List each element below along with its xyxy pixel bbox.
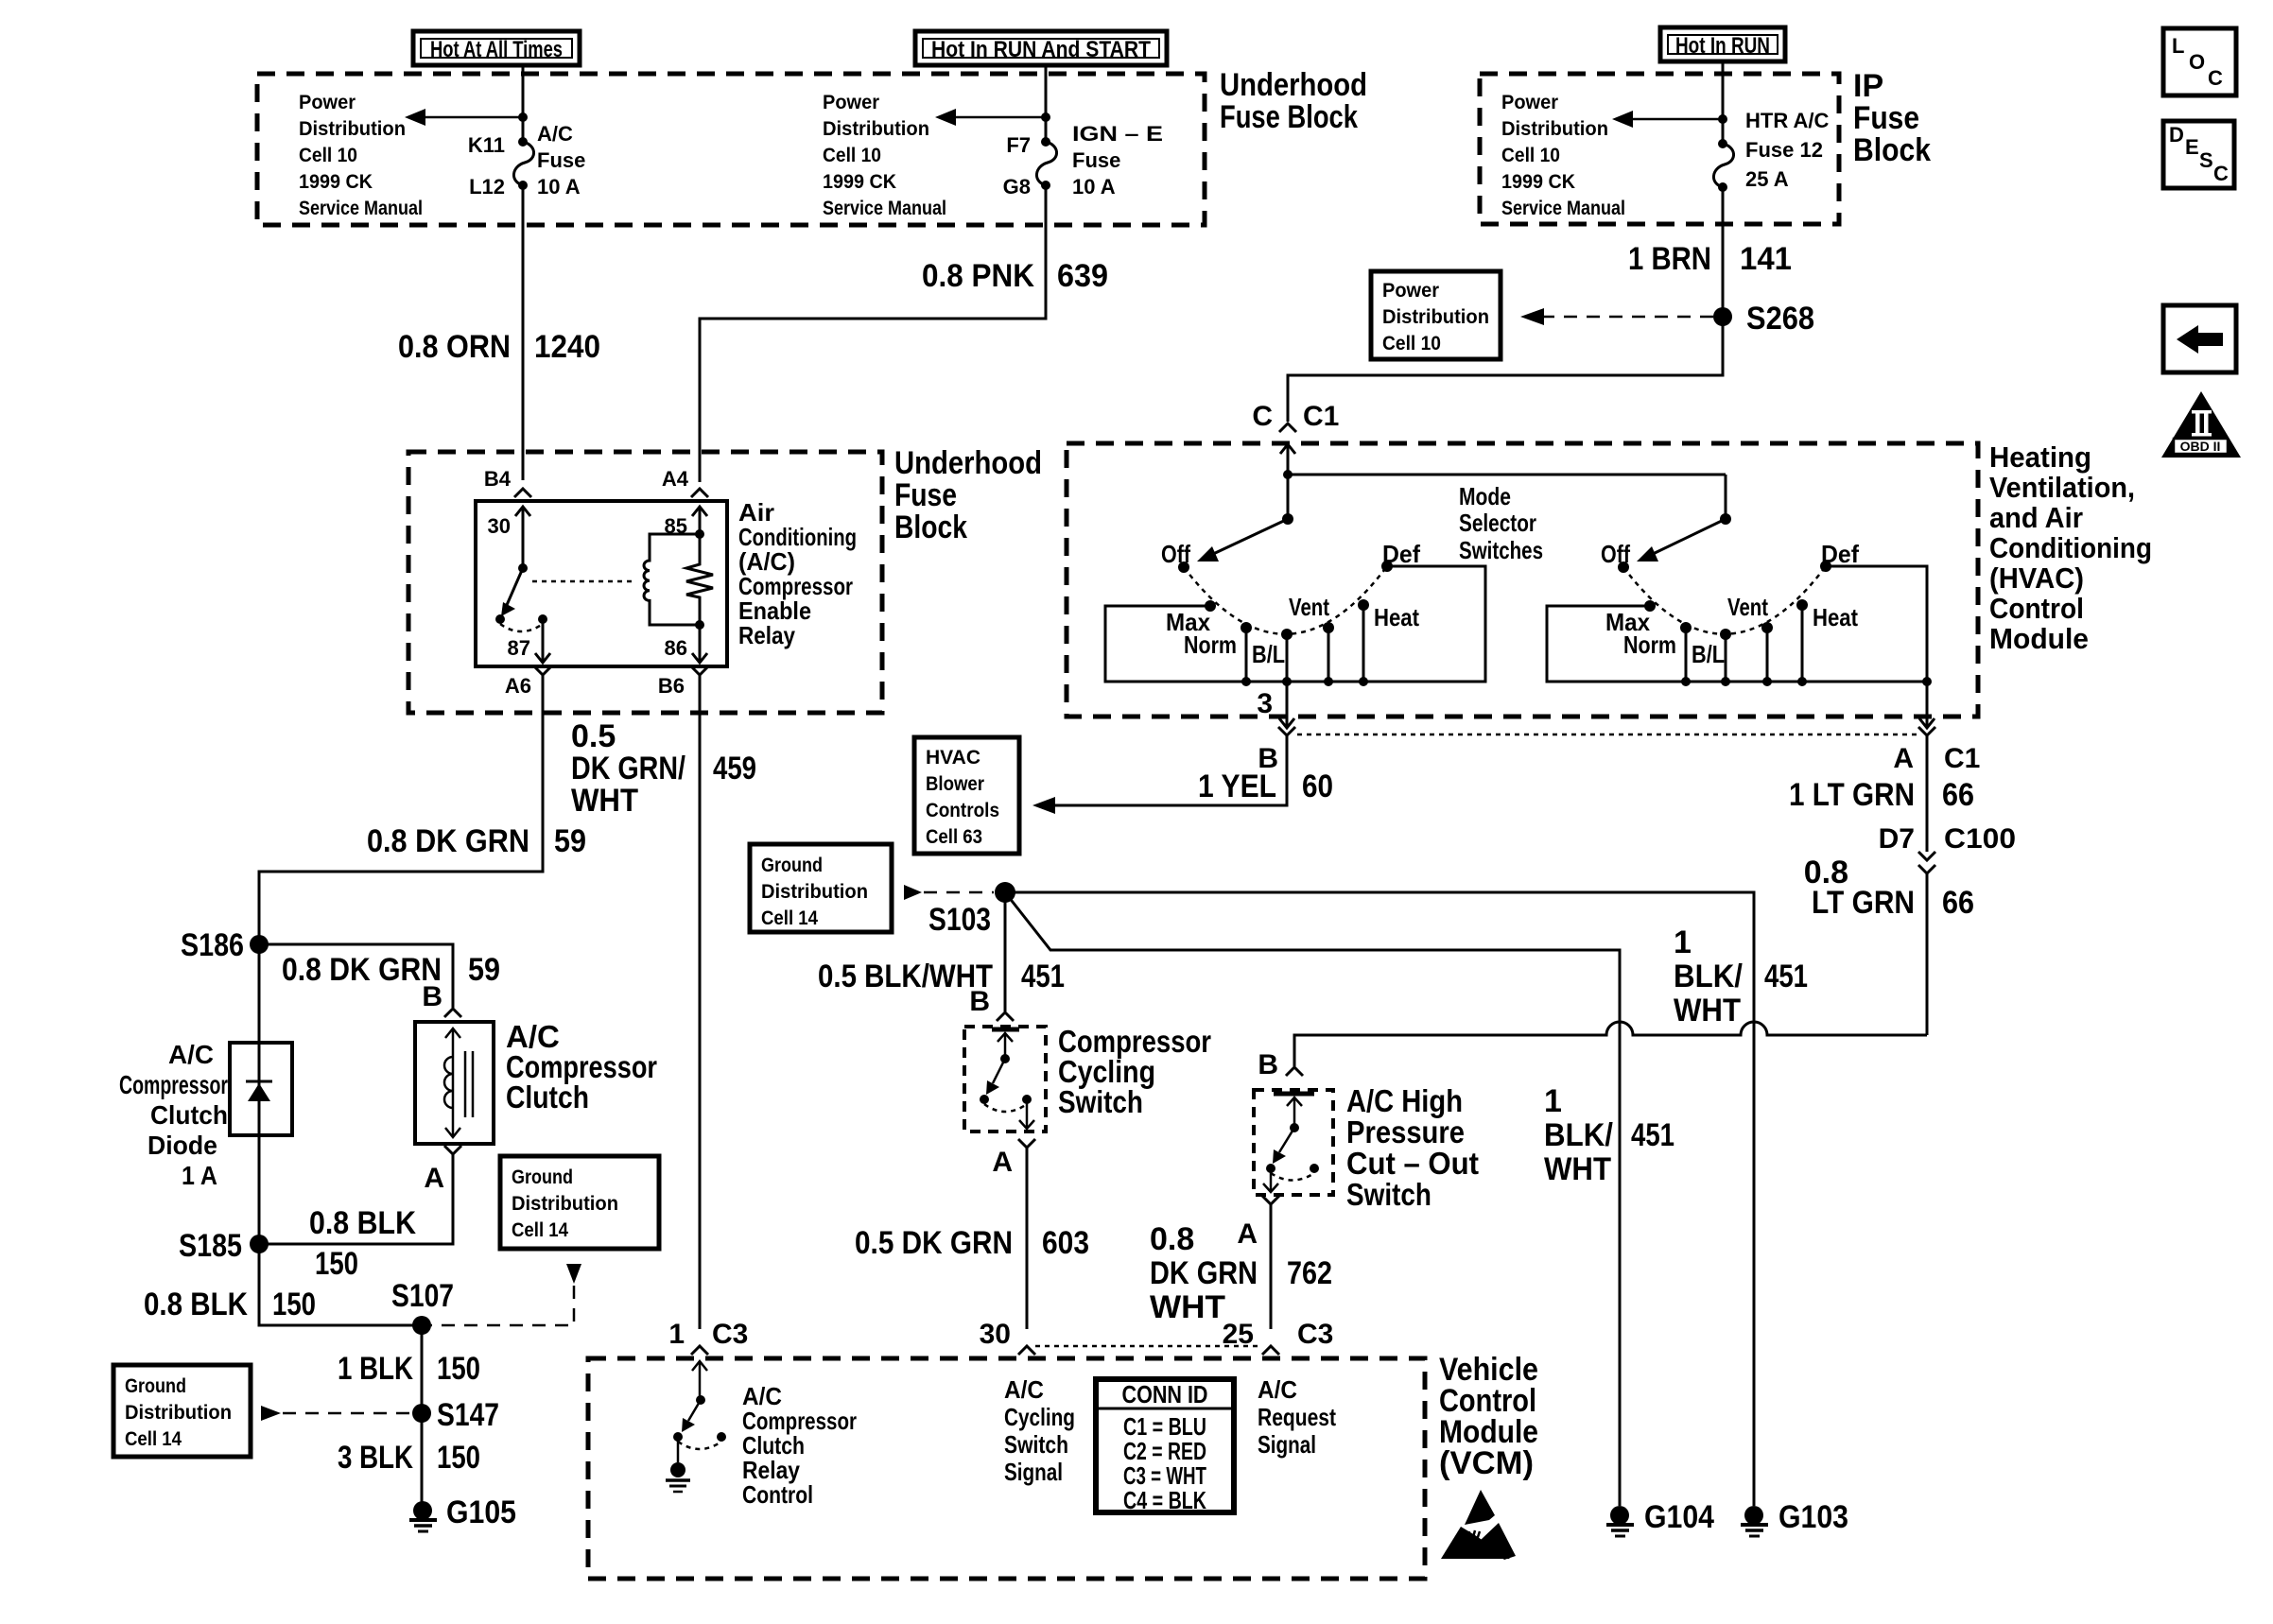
svg-text:59: 59: [554, 823, 586, 859]
compressor cycling switch dashed box: [964, 1027, 1046, 1132]
svg-text:B: B: [969, 986, 990, 1017]
svg-text:1 BLK: 1 BLK: [338, 1351, 413, 1387]
relay coil branch top: [695, 529, 704, 539]
svg-text:Service Manual: Service Manual: [1501, 198, 1625, 219]
splice S268: [1713, 307, 1732, 326]
connector C1 chevron: [1279, 423, 1296, 432]
HVAC internal feed wires: [1288, 474, 1726, 476]
connector B chevron (pressure switch): [1286, 1067, 1303, 1076]
svg-text:WHT: WHT: [571, 783, 638, 819]
svg-text:A4: A4: [662, 467, 689, 491]
svg-text:WHT: WHT: [1150, 1289, 1225, 1325]
svg-text:Diode: Diode: [147, 1131, 217, 1160]
label 0.8 PNK 639: [922, 258, 1108, 294]
svg-text:1 BRN: 1 BRN: [1628, 241, 1711, 277]
A/C fuse 10A symbol: [513, 137, 533, 190]
svg-text:Ground: Ground: [125, 1375, 186, 1397]
svg-text:IP: IP: [1853, 68, 1883, 104]
connector chevron pin 25 (VCM): [1262, 1346, 1279, 1355]
svg-text:A/C: A/C: [1004, 1375, 1044, 1404]
svg-text:Vent: Vent: [1289, 593, 1329, 621]
label 1 BLK/WHT 451 (right stack): [1674, 924, 1808, 1028]
connector A chevron (cycling switch): [1018, 1139, 1035, 1148]
connector B chevron (HVAC): [1278, 727, 1295, 735]
dashed reference from ground distribution (lower) to S147: [261, 1406, 412, 1421]
svg-text:IGN – E: IGN – E: [1072, 122, 1163, 146]
svg-text:CONN ID: CONN ID: [1122, 1380, 1208, 1408]
connector A4 chevron: [691, 489, 708, 497]
svg-text:Heat: Heat: [1374, 603, 1419, 631]
svg-text:Distribution: Distribution: [761, 881, 868, 903]
pin 30 entry arrow: [515, 507, 530, 568]
svg-text:60: 60: [1302, 769, 1333, 804]
svg-text:C: C: [1252, 401, 1273, 432]
A/C compressor clutch relay control label: [742, 1382, 857, 1509]
svg-text:0.5 BLK/WHT: 0.5 BLK/WHT: [818, 959, 993, 994]
splice S185: [250, 1235, 269, 1253]
svg-text:WHT: WHT: [1544, 1151, 1611, 1187]
svg-text:1 A: 1 A: [182, 1161, 217, 1190]
entry arrow into HVAC at C1: [1280, 444, 1295, 475]
svg-text:LT GRN: LT GRN: [1812, 885, 1915, 921]
svg-text:A6: A6: [505, 674, 531, 698]
svg-text:1 LT GRN: 1 LT GRN: [1789, 777, 1915, 813]
svg-text:BLK/: BLK/: [1544, 1117, 1614, 1153]
svg-text:G104: G104: [1644, 1499, 1714, 1535]
svg-text:459: 459: [713, 751, 756, 786]
label 0.5 DK GRN 603: [855, 1225, 1089, 1261]
svg-text:Distribution: Distribution: [512, 1193, 618, 1215]
IP fuse block dashed box: [1480, 74, 1839, 224]
HTR A/C fuse label: [1745, 109, 1830, 191]
svg-text:Service Manual: Service Manual: [299, 198, 423, 219]
label 0.5 BLK/WHT 451: [818, 959, 1065, 994]
svg-text:D: D: [2169, 123, 2184, 147]
pin 25 / C3 (VCM): [1223, 1319, 1334, 1350]
wire 3 BLK 150 from S147 to G105: [421, 1413, 424, 1503]
IGN-E fuse 10A symbol: [1036, 137, 1056, 190]
svg-text:G105: G105: [446, 1494, 516, 1530]
svg-text:A: A: [1237, 1218, 1258, 1250]
svg-text:Distribution: Distribution: [1382, 306, 1489, 328]
wire 0.8 DK GRN 59 from A6 to S186: [259, 675, 543, 944]
svg-text:Mode: Mode: [1459, 482, 1511, 510]
svg-text:L: L: [2172, 34, 2184, 58]
right switch position B/L: [1720, 629, 1731, 640]
VCM clutch relay driver symbol: [673, 1361, 726, 1462]
A/C compressor enable relay box: [476, 501, 727, 666]
svg-text:F7: F7: [1006, 133, 1031, 157]
svg-text:30: 30: [980, 1319, 1011, 1350]
svg-text:0.8: 0.8: [1150, 1221, 1194, 1257]
relay resistor: [686, 534, 713, 625]
label 0.5 DK GRN/WHT 459: [571, 718, 756, 819]
Hot At All Times flag box: [413, 31, 580, 65]
svg-text:Request: Request: [1258, 1403, 1336, 1431]
svg-text:Norm: Norm: [1184, 631, 1237, 659]
svg-text:G103: G103: [1778, 1499, 1848, 1535]
dashed reference from ground distribution to S103: [904, 885, 994, 900]
svg-text:Clutch: Clutch: [150, 1100, 228, 1130]
svg-text:A/C: A/C: [1258, 1375, 1297, 1404]
arrow into HVAC blower controls: [1032, 797, 1055, 814]
svg-text:86: 86: [665, 636, 687, 660]
svg-text:1240: 1240: [534, 329, 600, 365]
HVAC internal feed node: [1283, 470, 1293, 479]
splice S147: [412, 1404, 431, 1423]
pin 86 exit arrow: [692, 625, 707, 663]
svg-text:Conditioning: Conditioning: [1989, 531, 2152, 564]
wire 0.5 BLK/WHT 451 from S103 to cycling switch: [1004, 892, 1007, 1011]
pressure switch internal symbol: [1263, 1094, 1319, 1192]
svg-text:B: B: [1258, 1049, 1278, 1080]
relay coil: [644, 534, 700, 625]
svg-text:C4 = BLK: C4 = BLK: [1123, 1486, 1206, 1514]
VCM internal ground: [666, 1462, 690, 1492]
wire 1 LT GRN 66: [1926, 735, 1929, 852]
svg-text:Heat: Heat: [1813, 603, 1858, 631]
relay switch arm: [501, 568, 523, 616]
right mode switch pivot: [1720, 513, 1731, 525]
splice S186: [250, 935, 269, 954]
LOC legend box: [2163, 28, 2236, 95]
left switch position Def: [1381, 561, 1393, 572]
ground G104: [1606, 1506, 1634, 1536]
label 1 LT GRN 66: [1789, 777, 1974, 813]
relay coil branch bottom: [695, 620, 704, 630]
svg-text:Cell 10: Cell 10: [823, 145, 881, 166]
svg-text:S107: S107: [391, 1278, 454, 1314]
svg-text:1 YEL: 1 YEL: [1198, 769, 1276, 804]
svg-text:D7: D7: [1879, 823, 1915, 855]
svg-text:C3: C3: [1297, 1319, 1333, 1350]
svg-text:Power: Power: [299, 92, 356, 113]
svg-text:Ventilation,: Ventilation,: [1989, 471, 2135, 504]
ground distribution cell 14 box (upper): [500, 1156, 659, 1249]
svg-text:87: 87: [508, 636, 530, 660]
HVAC blower controls cell 63 box: [914, 737, 1019, 854]
right mode switch arm arrow: [1637, 519, 1726, 561]
dashed reference from ground distribution (upper) to S107: [431, 1264, 581, 1325]
svg-text:3: 3: [1257, 688, 1273, 719]
Hot In RUN flag box: [1660, 27, 1785, 61]
svg-text:Cell 63: Cell 63: [926, 826, 982, 848]
svg-text:B4: B4: [484, 467, 512, 491]
svg-text:Cell 10: Cell 10: [1501, 145, 1560, 166]
svg-text:Service Manual: Service Manual: [823, 198, 946, 219]
A/C fuse label: [537, 122, 585, 199]
A/C high pressure cut-out switch dashed box: [1254, 1090, 1333, 1195]
arrow to power distribution (middle fuse block): [935, 109, 1046, 126]
svg-text:S268: S268: [1746, 301, 1814, 337]
svg-text:3 BLK: 3 BLK: [338, 1440, 413, 1476]
vehicle control module (VCM) label: [1439, 1352, 1538, 1481]
ground G103: [1741, 1506, 1768, 1536]
wire 0.8 PNK 639: [700, 185, 1046, 482]
left switch position Norm: [1241, 622, 1252, 633]
cycling switch internal symbol: [980, 1029, 1034, 1129]
left mode switch arm arrow: [1197, 519, 1288, 561]
svg-text:Switches: Switches: [1459, 536, 1543, 564]
svg-text:Underhood: Underhood: [1220, 67, 1367, 103]
svg-text:Cell 14: Cell 14: [125, 1428, 182, 1450]
label 1 BLK/WHT 451 (left stack): [1544, 1083, 1674, 1187]
wire 1 BLK/WHT 451 (lower branch to G104): [1005, 892, 1620, 1506]
svg-text:C3: C3: [712, 1319, 748, 1350]
diode symbol: [246, 1081, 272, 1101]
ground G105: [409, 1501, 437, 1531]
svg-text:S147: S147: [437, 1397, 499, 1433]
wire 0.8 LT GRN 66 down to pressure switch line: [1926, 873, 1929, 1035]
wire 0.8 BLK 150 from S185 to S107: [259, 1244, 422, 1325]
HVAC control module dashed box: [1067, 443, 1978, 717]
svg-text:G8: G8: [1003, 175, 1031, 199]
label 0.8 BLK 150 (clutch): [309, 1205, 416, 1282]
svg-text:Signal: Signal: [1258, 1430, 1316, 1459]
CONN ID table: [1096, 1379, 1234, 1514]
connector B chevron (cycling switch): [997, 1012, 1014, 1021]
underhood fuse block 2 dashed box: [408, 452, 882, 713]
svg-text:451: 451: [1021, 959, 1065, 994]
left switch position ties: [1241, 605, 1368, 686]
wire 1 BLK/WHT 451 (upper branch to G103): [1005, 892, 1754, 1506]
connector B6 chevron: [691, 666, 708, 675]
svg-text:Block: Block: [1853, 132, 1931, 168]
svg-text:25 A: 25 A: [1745, 167, 1789, 191]
connector chevron pin 30 (VCM): [1018, 1346, 1035, 1355]
svg-text:Compressor: Compressor: [119, 1070, 228, 1099]
svg-text:30: 30: [488, 514, 511, 538]
svg-text:762: 762: [1287, 1255, 1332, 1291]
svg-text:Off: Off: [1601, 540, 1630, 568]
svg-text:Distribution: Distribution: [1501, 118, 1608, 140]
A/C compressor clutch label: [506, 1019, 657, 1114]
DESC legend box: [2163, 121, 2234, 188]
svg-text:O: O: [2189, 50, 2205, 74]
ESD sensitive symbol: [1441, 1490, 1516, 1560]
svg-text:10 A: 10 A: [537, 175, 581, 199]
svg-text:Power: Power: [1501, 92, 1558, 113]
svg-text:Selector: Selector: [1459, 509, 1536, 537]
wire 0.8 BLK 150 from clutch A to S185: [259, 1154, 453, 1244]
svg-text:Relay: Relay: [738, 621, 795, 649]
left switch position Max: [1205, 600, 1216, 612]
A/C compressor clutch diode box: [230, 1043, 292, 1135]
pin 1 / C3 (VCM): [668, 1319, 748, 1350]
svg-text:S: S: [2199, 148, 2213, 172]
VCM C3 connector dashed line: [1035, 1345, 1260, 1348]
left switch dashed arc: [1184, 566, 1387, 634]
svg-text:A: A: [1893, 743, 1914, 774]
svg-text:(HVAC): (HVAC): [1989, 561, 2084, 595]
relay actuation dashed link: [532, 580, 632, 583]
svg-text:150: 150: [437, 1351, 480, 1387]
left switch position Heat: [1358, 599, 1369, 611]
svg-text:Fuse: Fuse: [1853, 100, 1919, 136]
svg-text:Module: Module: [1989, 622, 2089, 655]
svg-text:0.5: 0.5: [571, 718, 616, 754]
svg-text:Switch: Switch: [1004, 1430, 1068, 1459]
wire 1 BLK 150 from S107 to S147: [421, 1325, 424, 1413]
left mode switch pivot: [1282, 513, 1293, 525]
svg-text:Cut – Out: Cut – Out: [1346, 1146, 1479, 1181]
right switch position Off: [1618, 561, 1629, 573]
wire 0.5 DK GRN 603: [1026, 1148, 1029, 1329]
svg-text:141: 141: [1740, 241, 1792, 277]
svg-text:1999 CK: 1999 CK: [823, 171, 896, 193]
svg-text:Vent: Vent: [1727, 593, 1768, 621]
underhood fuse block 1 dashed box: [257, 74, 1205, 225]
svg-text:1: 1: [668, 1319, 685, 1350]
wire 1 BRN 141: [1722, 187, 1725, 372]
wire from Hot In RUN down to fuse: [1722, 61, 1725, 144]
svg-text:Cycling: Cycling: [1004, 1403, 1075, 1431]
svg-text:150: 150: [272, 1287, 316, 1322]
connector A chevron (clutch): [444, 1146, 461, 1154]
svg-text:C1: C1: [1944, 743, 1980, 774]
power distribution cell 10 reference text (middle): [823, 92, 946, 219]
svg-text:451: 451: [1631, 1117, 1674, 1153]
svg-text:A: A: [424, 1163, 444, 1194]
svg-text:and Air: and Air: [1989, 501, 2083, 534]
svg-text:1999 CK: 1999 CK: [1501, 171, 1575, 193]
svg-text:Power: Power: [823, 92, 879, 113]
IP Fuse Block label: [1853, 68, 1931, 168]
svg-text:C100: C100: [1944, 823, 2016, 855]
svg-text:Hot In RUN And START: Hot In RUN And START: [931, 37, 1151, 62]
dashed reference arrow from S268 to power distribution box: [1520, 308, 1713, 325]
back-arrow legend box: [2163, 305, 2236, 372]
svg-text:C: C: [2213, 162, 2229, 185]
svg-text:OBD II: OBD II: [2180, 439, 2221, 454]
svg-text:Fuse: Fuse: [537, 148, 585, 172]
svg-text:Hot At All Times: Hot At All Times: [430, 37, 563, 62]
left switch position B/L: [1281, 629, 1293, 640]
svg-text:Def: Def: [1821, 540, 1859, 568]
relay label: [738, 498, 857, 649]
power distribution cell 10 box: [1371, 271, 1501, 359]
label 1 BLK 150: [338, 1351, 480, 1387]
right switch position Def: [1820, 561, 1831, 572]
svg-text:Fuse Block: Fuse Block: [1220, 99, 1358, 135]
left switch position Off: [1178, 561, 1189, 573]
Mode Selector Switches label: [1459, 482, 1543, 564]
svg-text:1999 CK: 1999 CK: [299, 171, 373, 193]
arrow to power distribution (left fuse block): [405, 109, 523, 126]
svg-text:Distribution: Distribution: [299, 118, 406, 140]
svg-text:Heating: Heating: [1989, 441, 2091, 474]
svg-text:0.8 DK GRN: 0.8 DK GRN: [282, 952, 442, 988]
svg-text:S185: S185: [179, 1228, 242, 1264]
wire 0.8 ORN 1240: [522, 185, 525, 480]
svg-text:Pressure: Pressure: [1346, 1114, 1465, 1149]
relay contact nodes: [495, 614, 505, 624]
label 0.8 DK GRN WHT 762: [1150, 1221, 1332, 1325]
svg-text:Ground: Ground: [512, 1166, 573, 1188]
relay switch pivot: [518, 563, 528, 573]
svg-text:Def: Def: [1382, 540, 1420, 568]
wire 0.8 DK GRN WHT 762: [1270, 1204, 1273, 1329]
svg-text:(VCM): (VCM): [1439, 1445, 1534, 1481]
wire from Hot At All Times down to fuse: [522, 65, 525, 142]
relay contact dashed arc: [500, 624, 543, 631]
svg-text:Signal: Signal: [1004, 1458, 1063, 1486]
node at arrow junction: [518, 112, 528, 122]
svg-text:0.8 BLK: 0.8 BLK: [309, 1205, 416, 1241]
label 1 BRN 141: [1628, 241, 1792, 277]
svg-text:C: C: [2208, 66, 2223, 90]
svg-text:10 A: 10 A: [1072, 175, 1116, 199]
svg-text:B/L: B/L: [1692, 640, 1725, 668]
right switch output node: [1922, 677, 1932, 686]
right switch output arrow: [1919, 682, 1935, 728]
connector A chevron (HVAC): [1918, 727, 1935, 735]
svg-text:150: 150: [315, 1246, 358, 1282]
right switch dashed arc: [1623, 566, 1826, 634]
svg-text:0.5 DK GRN: 0.5 DK GRN: [855, 1225, 1013, 1261]
right switch position Heat: [1796, 599, 1808, 611]
wire through diode: [258, 944, 261, 1244]
svg-text:Control: Control: [742, 1480, 813, 1509]
power distribution cell 10 reference text (left): [299, 92, 423, 219]
svg-text:A/C High: A/C High: [1346, 1083, 1463, 1118]
svg-text:C1: C1: [1303, 401, 1339, 432]
pin A / C1 (HVAC): [1893, 743, 1980, 774]
svg-text:E: E: [2185, 135, 2199, 159]
svg-text:DK GRN: DK GRN: [1150, 1255, 1258, 1291]
splice S107: [412, 1316, 431, 1335]
svg-text:Cell 14: Cell 14: [761, 907, 818, 929]
wire 0.5 DK GRN/WHT 459 from B6 to VCM: [699, 675, 702, 1329]
svg-text:B: B: [422, 981, 442, 1012]
svg-text:0.8 BLK: 0.8 BLK: [144, 1287, 248, 1322]
svg-text:HVAC: HVAC: [926, 747, 980, 769]
label 0.8 LT GRN 66: [1804, 855, 1974, 921]
svg-text:639: 639: [1057, 258, 1108, 294]
ground distribution cell 14 box (S103): [750, 844, 892, 932]
Hot In RUN And START flag box: [915, 31, 1167, 65]
svg-text:Block: Block: [894, 510, 967, 545]
right switch position Max: [1644, 600, 1656, 612]
wire 1 YEL 60: [1053, 735, 1287, 805]
label 0.8 DK GRN 59 (upper): [367, 823, 586, 859]
svg-text:Off: Off: [1161, 540, 1190, 568]
svg-text:A: A: [992, 1147, 1013, 1178]
label 0.8 DK GRN 59 (lower): [282, 952, 500, 988]
right switch position ties: [1681, 605, 1807, 686]
left switch position Vent: [1323, 622, 1334, 633]
connector B chevron (clutch): [444, 1009, 461, 1017]
svg-text:A/C: A/C: [168, 1040, 214, 1069]
svg-text:66: 66: [1942, 777, 1974, 813]
ground distribution cell 14 box (lower left): [113, 1365, 251, 1457]
right switch position Norm: [1680, 622, 1692, 633]
svg-text:1: 1: [1674, 924, 1692, 960]
svg-text:WHT: WHT: [1674, 993, 1741, 1028]
connector A6 chevron: [534, 666, 551, 675]
svg-text:Cell 10: Cell 10: [299, 145, 357, 166]
svg-text:K11: K11: [468, 133, 505, 157]
svg-text:B/L: B/L: [1252, 640, 1285, 668]
wire from S268 to HVAC C1: [1288, 325, 1723, 422]
svg-text:0.8 PNK: 0.8 PNK: [922, 258, 1034, 294]
clutch internal symbol: [444, 1028, 473, 1137]
wire 0.8 DK GRN 59 from S186 to clutch B: [259, 944, 453, 1008]
connector B4 chevron: [514, 489, 531, 497]
connector A chevron (pressure switch): [1262, 1196, 1279, 1204]
A/C high pressure cut-out switch label: [1346, 1083, 1479, 1212]
svg-text:Distribution: Distribution: [823, 118, 929, 140]
